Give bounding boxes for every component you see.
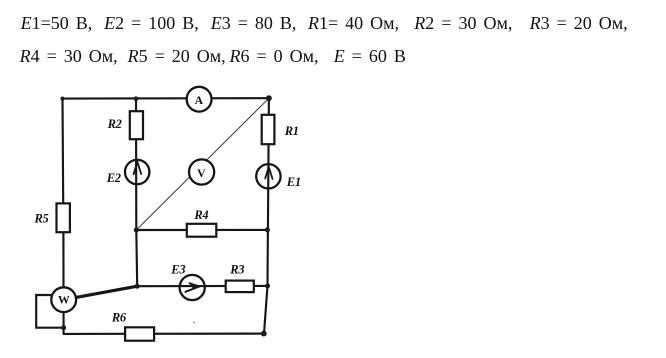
wire top horizontal (63, 97, 269, 100)
arrow of source E2 (134, 162, 142, 175)
stray speck (193, 322, 195, 324)
wire bottom horizontal (64, 333, 264, 335)
resistor R1 (262, 115, 275, 144)
svg-text:E1: E1 (286, 175, 301, 189)
parameters text line 2 (20, 47, 118, 65)
node top-left (60, 97, 64, 101)
wire R4 horizontal (136, 229, 267, 231)
node W bottom (61, 325, 66, 330)
resistor R4 (187, 224, 217, 237)
node R2 top (134, 96, 139, 101)
arrow of source E3 (186, 283, 200, 292)
wire right vertical (264, 98, 269, 333)
arrowhead fill of source E3 (192, 284, 200, 290)
node R4 right (265, 227, 270, 232)
svg-text:R1: R1 (284, 124, 299, 138)
ammeter A (187, 87, 212, 112)
parameters text line 1 (21, 14, 93, 32)
resistor R2 (130, 111, 143, 139)
svg-text:V: V (197, 167, 206, 180)
svg-text:R6: R6 (111, 311, 127, 325)
node R3 right (265, 283, 270, 288)
wire wattmeter voltage loop (36, 295, 63, 328)
wire left vertical (63, 99, 64, 334)
node bottom-right (261, 331, 267, 337)
resistor R3 (226, 281, 254, 293)
wire middle vertical (R2/E2 branch) (136, 99, 137, 287)
source E2 (125, 160, 149, 184)
node top-right (266, 95, 272, 101)
svg-text:W: W (58, 293, 70, 306)
svg-text:E3: E3 (170, 263, 185, 277)
svg-text:R2: R2 (107, 117, 122, 131)
voltmeter V (189, 159, 214, 184)
resistor R5 (57, 203, 70, 232)
wire thick wattmeter lead (74, 286, 137, 298)
svg-text:E2: E2 (106, 171, 121, 185)
node E3 left (135, 284, 140, 289)
source E1 (256, 164, 280, 188)
node R4 left (134, 228, 139, 233)
svg-text:R5: R5 (34, 211, 49, 225)
arrow of source E1 (265, 167, 272, 179)
wire E3/R3 horizontal (137, 285, 267, 287)
svg-text:A: A (195, 94, 204, 107)
source E3 (180, 275, 205, 300)
resistor R6 (125, 327, 154, 340)
wire diagonal (voltmeter branch) (136, 98, 269, 230)
svg-text:R4: R4 (193, 208, 208, 222)
wattmeter W (51, 287, 76, 312)
svg-text:R3: R3 (229, 262, 244, 276)
